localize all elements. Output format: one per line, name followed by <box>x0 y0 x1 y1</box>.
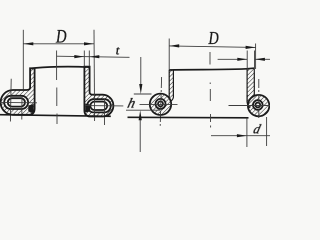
left link: right curl second centerline (lower stub) <box>104 99 106 125</box>
right link: left boss (hatched ring with bore) <box>150 94 171 115</box>
left link: right curl horizontal centerline <box>85 105 123 107</box>
left link: left curl vertical centerline <box>9 79 12 122</box>
dimension h (right link): lower shaft with up arrow <box>139 110 142 152</box>
dimension d (right link): extension line right <box>266 117 268 146</box>
right link: left wall (hatched section) <box>169 70 173 102</box>
right link: right boss pin hole <box>255 103 260 108</box>
left link: right curl vertical centerline / D right extension <box>93 30 96 121</box>
dimension D (right link): extension line right <box>255 44 257 70</box>
svg-text:D: D <box>55 27 67 47</box>
dimension D (right link): dimension line with arrows <box>169 44 255 49</box>
right link: right wall (hatched section) <box>247 69 255 108</box>
dimension h (right link): lower tick line <box>126 109 161 111</box>
right link: plate top edge <box>169 68 254 70</box>
right link: middle dashed centerline <box>209 52 212 128</box>
right link: baseline / ground line <box>128 116 249 119</box>
right link: left boss pin hole <box>158 101 163 106</box>
left link: plate tip inside right curl <box>85 104 90 113</box>
dimension t (right link): extension lines over right wall <box>247 51 254 73</box>
dimension d (right link): dimension line with right arrow <box>211 134 270 137</box>
dimension D (left link): extension line left <box>22 30 24 90</box>
dimension h (right link): upper shaft with down arrow <box>139 57 142 94</box>
dimension h (right link): upper tick line <box>134 93 152 95</box>
left link: left curl second centerline (lower stub) <box>21 96 23 120</box>
svg-text:D: D <box>208 28 219 48</box>
svg-text:h: h <box>126 96 137 112</box>
left link: plate top edge <box>30 67 89 69</box>
right link: right boss horizontal centerline <box>229 105 271 107</box>
svg-text:d: d <box>252 122 263 137</box>
left link: left slot inner stadium <box>8 98 25 106</box>
right link: right boss (hatched ring with bore) <box>248 95 269 116</box>
right link: left boss vertical centerline <box>160 77 161 126</box>
left link: left curl horizontal centerline <box>0 101 37 103</box>
dimension t (left link): dimension line with arrows <box>56 55 129 58</box>
dimension t (right link): dimension line with arrows <box>218 58 270 61</box>
dimension D (left link): dimension line with arrows <box>23 42 94 45</box>
left link: baseline / ground line <box>0 115 111 117</box>
dimension d (right link): extension line left <box>246 118 248 147</box>
svg-text:t: t <box>116 42 120 57</box>
left link: right wall and curled end (one hatched section) <box>84 67 113 117</box>
left link: plate tip inside left curl <box>28 104 33 113</box>
left link: middle dashed centerline <box>56 51 58 125</box>
left link: left wall and curled end (one hatched section) <box>1 68 35 115</box>
dimension D (right link): extension line left <box>168 39 170 70</box>
dimension t (left link): extension lines over right wall <box>84 51 89 67</box>
left link: right slot inner stadium <box>90 102 107 110</box>
right link: left boss horizontal centerline <box>140 103 178 105</box>
right link: right boss vertical centerline <box>258 79 260 119</box>
